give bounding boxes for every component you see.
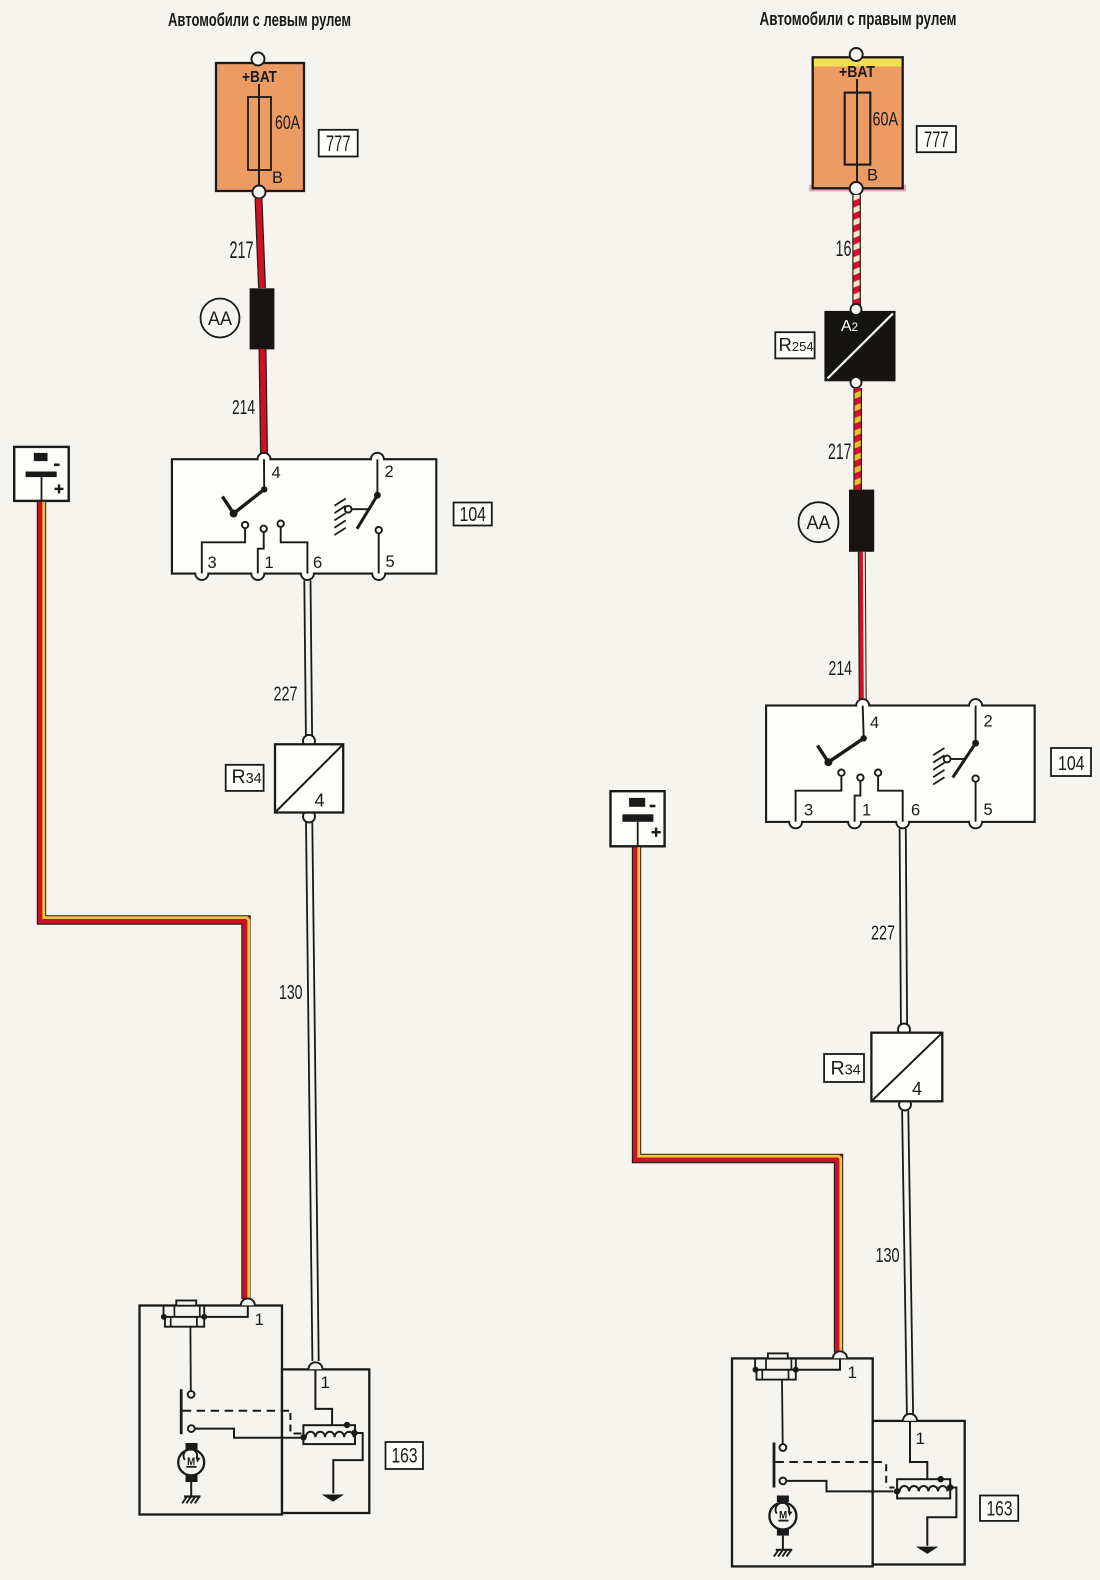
svg-text:1: 1 — [916, 1429, 925, 1448]
motor ground (left 163) — [182, 1482, 200, 1503]
pin 1 path (left 104) — [258, 526, 267, 574]
connector AA (left) — [250, 288, 275, 349]
R34 unit square (right) — [871, 1024, 942, 1111]
pin 6 terminal bump (left 104) — [301, 567, 314, 580]
relay section box (left 163) — [282, 1369, 369, 1513]
label 777 (left) — [319, 130, 358, 157]
wire 130 grey (left, R34 to washer unit) — [306, 822, 319, 1361]
red wire battery to washer unit (right) — [637, 847, 841, 1352]
pin 4 label (right 104) — [870, 714, 879, 732]
pin 1 terminal bump (left 104) — [251, 567, 264, 580]
+BAT pin label (right fuse) — [839, 64, 875, 81]
pin B terminal (left fuse) — [253, 186, 266, 199]
pin 5 lead (left 104) — [376, 527, 382, 574]
wire 227 grey (right, pin 6 to R34) — [900, 829, 908, 1024]
pin 6 path (right 104) — [875, 770, 903, 822]
washer unit outer box (left 163) — [140, 1306, 283, 1515]
svg-text:3: 3 — [208, 554, 217, 572]
svg-text:+BAT: +BAT — [242, 69, 277, 86]
AA circle label (left) — [201, 299, 240, 338]
pump lead down to switch contact (left 163) — [188, 1327, 195, 1398]
hatched wall (left 104) — [334, 499, 345, 536]
+BAT pin label (left fuse) — [242, 69, 277, 86]
wire label 130 (right) — [876, 1245, 900, 1267]
svg-text:2: 2 — [984, 713, 993, 731]
svg-text:6: 6 — [911, 802, 920, 820]
pin 5 terminal bump (left 104) — [372, 567, 385, 580]
wire 227 grey (left, pin 6 to R34) — [304, 581, 312, 736]
svg-text:4: 4 — [315, 791, 325, 811]
svg-text:4: 4 — [272, 464, 281, 482]
wire contact to coil (left 163) — [195, 1429, 301, 1438]
pin 1 label (left 104) — [265, 554, 274, 572]
svg-text:163: 163 — [987, 1498, 1013, 1521]
pin 6 label (left 104) — [313, 554, 322, 572]
washer pump symbol (right 163) — [753, 1353, 841, 1379]
switch arm pin 4 (right 104) — [818, 735, 867, 766]
pin 5 label (left 104) — [386, 553, 395, 571]
ground arrow (right 163) — [916, 1547, 938, 1554]
wire contact to coil (right 163) — [786, 1481, 893, 1492]
pin 1 label (left 163 relay) — [321, 1373, 330, 1392]
wire 16 striped red-white (right, fuse to R254) — [852, 195, 861, 308]
wire label 214 (left) — [232, 397, 255, 419]
pin 4 terminal bump (left 104) — [258, 453, 271, 466]
washer unit outer box (right 163) — [732, 1358, 873, 1566]
label R254 (right) — [775, 332, 814, 358]
pin 4 lead (right 104) — [863, 706, 864, 739]
svg-text:60A: 60A — [873, 110, 899, 131]
wire 217 striped red-yellow (right, R254 to AA) — [853, 388, 862, 490]
pin B label (right fuse) — [867, 167, 878, 185]
svg-text:227: 227 — [871, 923, 895, 945]
grey wire entry bump (left 163 relay) — [309, 1362, 323, 1369]
pin 3 path (right 104) — [796, 770, 845, 822]
pin 6 path (left 104) — [278, 521, 308, 574]
top terminal (right fuse) — [850, 48, 863, 61]
svg-text:104: 104 — [1058, 753, 1085, 775]
label 163 (right) — [980, 1496, 1018, 1521]
pin 2 lead and switch (left 104) — [345, 459, 381, 529]
svg-text:6: 6 — [313, 554, 322, 572]
pin B label (left fuse) — [272, 169, 283, 187]
pin 1 label (left 163 pump) — [255, 1310, 264, 1329]
pin 2 label (left 104) — [385, 463, 394, 481]
value label 60A (right fuse) — [873, 110, 899, 131]
relay coil to ground wire (right 163) — [927, 1488, 956, 1546]
svg-text:4: 4 — [870, 714, 879, 732]
connector AA (right) — [849, 490, 874, 552]
svg-text:B: B — [272, 169, 283, 187]
lower contact circle (right 163) — [780, 1478, 787, 1485]
wire label 227 (left) — [274, 684, 298, 706]
svg-text:16: 16 — [836, 236, 852, 261]
wire 214 red (left, AA to switch 104) — [263, 349, 265, 453]
pin 1 terminal bump (right 104) — [848, 815, 861, 828]
dashed link to relay coil (right 163) — [775, 1462, 894, 1488]
svg-text:777: 777 — [924, 127, 949, 152]
red wire battery to washer unit (left) — [42, 502, 249, 1299]
label R34 (left) — [226, 765, 264, 791]
moving contact bar (right 163) — [773, 1443, 776, 1488]
svg-text:1: 1 — [321, 1373, 330, 1392]
svg-text:AA: AA — [807, 513, 831, 534]
fuse box 777 body (left) — [216, 63, 304, 191]
pin 1 label (right 163 pump) — [848, 1363, 857, 1382]
value label 60A (left fuse) — [275, 113, 300, 134]
washer pump symbol (left 163) — [161, 1301, 248, 1327]
pin 5 label (right 104) — [984, 801, 993, 819]
svg-text:163: 163 — [392, 1445, 418, 1468]
wire label 16 (right) — [836, 236, 852, 261]
relay coil (right 163) — [894, 1476, 954, 1498]
pin 3 label (right 104) — [804, 802, 813, 820]
pin 2 terminal bump (right 104) — [969, 699, 982, 712]
svg-text:1: 1 — [862, 802, 871, 820]
pin 3 path (left 104) — [202, 522, 249, 574]
relay coil (left 163) — [300, 1422, 357, 1444]
svg-text:1: 1 — [255, 1310, 264, 1329]
relay feed wire (right 163) — [910, 1421, 927, 1479]
fuse element 60A (right) — [845, 79, 871, 183]
grey wire entry bump (right 163 relay) — [903, 1414, 917, 1421]
pin 4 lead (left 104) — [263, 459, 265, 489]
wire 217 red (left, fuse to AA) — [259, 199, 263, 289]
wire label 217 (left) — [230, 237, 254, 264]
label 104 (right) — [1051, 748, 1091, 776]
svg-text:4: 4 — [912, 1079, 922, 1099]
svg-text:60A: 60A — [275, 113, 300, 134]
pin 6 label (right 104) — [911, 802, 920, 820]
svg-text:+BAT: +BAT — [839, 64, 875, 81]
dashed link to relay coil (left 163) — [183, 1411, 302, 1434]
pin 1 label (right 163 relay) — [916, 1429, 925, 1448]
hatched wall (right 104) — [933, 748, 944, 785]
pin 2 label (right 104) — [984, 713, 993, 731]
pin 4 label (left 104) — [272, 464, 281, 482]
pin 6 terminal bump (right 104) — [896, 815, 909, 828]
pin 2 terminal bump (left 104) — [371, 453, 384, 466]
fuse element 60A (left) — [248, 84, 271, 186]
ground arrow (left 163) — [322, 1495, 344, 1502]
R34 unit square (left) — [275, 735, 343, 823]
battery (left) — [14, 447, 68, 501]
pin B terminal (right fuse) — [850, 182, 863, 195]
label 777 (right) — [917, 126, 956, 152]
wire 130 grey (right, R34 to washer unit) — [902, 1111, 913, 1414]
interconnect unit R254 black box A2 (right) — [824, 304, 895, 388]
svg-text:130: 130 — [279, 982, 303, 1004]
relay section box (right 163) — [873, 1421, 965, 1565]
pin 1 label (right 104) — [862, 802, 871, 820]
wire label 214 (right) — [829, 658, 853, 680]
svg-text:214: 214 — [829, 658, 853, 680]
pin 3 label (left 104) — [208, 554, 217, 572]
svg-text:5: 5 — [386, 553, 395, 571]
pin 5 lead (right 104) — [972, 775, 978, 821]
svg-text:130: 130 — [876, 1245, 900, 1267]
label R34 (right) — [824, 1054, 864, 1082]
AA circle label (right) — [799, 502, 839, 542]
mask box 104 interior (right) — [767, 707, 1033, 821]
wire label 217 (right) — [828, 439, 852, 464]
top terminal (left fuse) — [252, 53, 265, 66]
motor M (left 163) — [178, 1443, 204, 1482]
label 104 (left) — [454, 503, 492, 527]
pump lead down to switch contact (right 163) — [780, 1380, 787, 1451]
relay coil to ground wire (left 163) — [333, 1433, 362, 1494]
svg-text:Автомобили с левым рулем: Автомобили с левым рулем — [168, 9, 351, 30]
lower contact circle (left 163) — [188, 1425, 195, 1432]
title right column — [760, 8, 957, 29]
wire label 130 (left) — [279, 982, 303, 1004]
moving contact bar (left 163) — [180, 1389, 183, 1434]
svg-text:227: 227 — [274, 684, 298, 706]
motor ground (right 163) — [774, 1536, 792, 1557]
pin 3 terminal bump (left 104) — [195, 567, 208, 580]
pin 4 terminal bump (right 104) — [856, 699, 869, 712]
motor M (right 163) — [769, 1496, 796, 1536]
wire 214 red (right, AA to switch 104) — [862, 552, 865, 699]
svg-text:217: 217 — [230, 237, 254, 264]
svg-text:104: 104 — [460, 504, 487, 526]
red wire entry bump (left 163) — [241, 1298, 255, 1305]
svg-text:AA: AA — [208, 309, 232, 330]
svg-text:217: 217 — [828, 439, 852, 464]
svg-text:5: 5 — [984, 801, 993, 819]
pin 1 path (right 104) — [855, 774, 864, 821]
svg-text:3: 3 — [804, 802, 813, 820]
battery (right) — [611, 791, 665, 846]
svg-text:214: 214 — [232, 397, 255, 419]
svg-text:B: B — [867, 167, 878, 185]
wire label 227 (right) — [871, 923, 895, 945]
fuse box 777 body (right) — [809, 57, 906, 191]
switch unit 104 box (left) — [172, 459, 436, 573]
label 163 (left) — [386, 1442, 424, 1469]
mask box 104 interior (left) — [173, 460, 435, 572]
svg-text:777: 777 — [326, 131, 351, 156]
switch unit 104 box (right) — [766, 706, 1034, 822]
svg-text:1: 1 — [848, 1363, 857, 1382]
svg-text:Автомобили с правым рулем: Автомобили с правым рулем — [760, 8, 957, 29]
red wire entry bump (right 163) — [833, 1351, 847, 1358]
title left column — [168, 9, 351, 30]
pin 3 terminal bump (right 104) — [789, 815, 802, 828]
pin 2 lead and switch (right 104) — [944, 706, 979, 778]
svg-text:1: 1 — [265, 554, 274, 572]
svg-text:2: 2 — [385, 463, 394, 481]
pin 5 terminal bump (right 104) — [969, 815, 982, 828]
switch arm pin 4 (left 104) — [222, 486, 267, 517]
relay feed wire (left 163) — [315, 1370, 332, 1425]
